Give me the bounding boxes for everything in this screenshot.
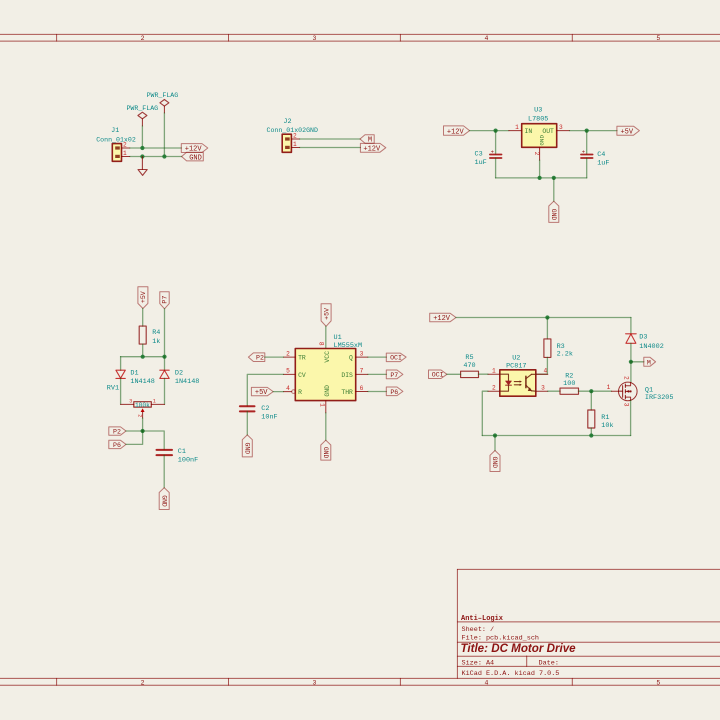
wire R2 to Q1 gate [579,390,612,392]
wire J2 pin2 to M label [300,138,360,140]
pin 2 of U3 (GND) [539,147,541,160]
wire U1 pin3 to OCI [368,356,386,358]
wire P2 to U1 pin2 [265,356,284,358]
svg-text:C4: C4 [597,151,605,159]
global label GND (right section) [490,451,500,472]
svg-text:+5V: +5V [255,389,268,397]
svg-text:THR: THR [341,389,353,396]
svg-text:2: 2 [286,350,290,357]
svg-text:Q: Q [349,355,353,362]
U2 internal LED [500,374,512,391]
svg-text:1: 1 [153,398,156,404]
svg-text:1: 1 [492,367,496,374]
svg-text:7: 7 [360,368,364,375]
svg-text:1k: 1k [152,338,160,346]
global label OCI (U1 out) [386,353,406,362]
connector J1 [96,127,136,161]
svg-text:10k: 10k [601,422,613,430]
wire junction down to R1 [590,391,592,410]
svg-text:IN: IN [525,128,533,135]
wire U1 pin1 to GND label [325,413,327,440]
svg-text:1: 1 [123,150,127,157]
svg-text:DIS: DIS [341,372,353,379]
svg-text:6: 6 [360,385,364,392]
mosfet Q1 IRF3205 [607,376,674,407]
global label P2 (left) [109,427,126,436]
svg-text:3: 3 [360,350,364,357]
pin 2 of J2 [291,138,299,140]
wire P6 up to node [126,431,143,444]
timer U1 LM555xM [283,334,368,413]
pin 5 CV of U1 [283,373,295,375]
svg-text:VCC: VCC [324,351,331,363]
pin 3 of U2 [536,390,548,392]
wire U3 pin2 to gnd bus [539,160,541,178]
potentiometer RV1 [107,385,165,419]
diode D1 [116,370,125,378]
junction at C4 top [585,129,589,133]
pin 1 of U2 [488,373,500,375]
pin 6 THR of U1 [356,391,368,393]
wire down to D1 [120,357,122,371]
U2 phototransistor [526,374,536,391]
global label OCI (input) [429,370,447,379]
pin 1 of J1 [122,156,130,158]
wire R1 to gnd bus [590,428,592,436]
wire D1 to RV1 left [120,378,122,404]
PWR_FLAG (right, on GND) [147,92,179,113]
svg-text:4: 4 [543,367,547,374]
svg-text:5: 5 [656,35,660,42]
svg-text:C3: C3 [475,150,483,158]
svg-text:PWR_FLAG: PWR_FLAG [147,92,179,99]
svg-text:J2: J2 [283,118,291,126]
svg-text:P6: P6 [390,389,398,396]
title block frame [457,569,720,678]
svg-text:2: 2 [141,679,145,686]
junction M node [629,360,633,364]
svg-text:1uF: 1uF [597,159,609,167]
wire node horizontal (D1 branch to D2 branch) [121,356,165,358]
junction GND label at bus [552,176,556,180]
svg-text:1: 1 [607,384,611,391]
pin 4 of U2 [536,373,548,375]
diode D2 [160,370,169,378]
pin 2 TR of U1 [283,356,295,358]
junction at C3 top [494,129,498,133]
global label +12V (right section) [430,313,456,323]
svg-text:D1: D1 [130,370,138,378]
svg-text:P2: P2 [113,429,121,436]
svg-text:GND: GND [491,457,498,469]
svg-text:U1: U1 [334,334,342,342]
svg-text:470: 470 [463,362,475,370]
capacitor C1 [157,448,199,465]
global label P6 (left) [109,440,126,449]
wire P2 to node [126,430,143,432]
capacitor C4 [581,131,609,178]
svg-text:1N4148: 1N4148 [130,378,154,386]
svg-text:3: 3 [129,398,132,404]
resistor R1 [588,410,614,430]
wire rail down to R3 [546,318,548,339]
global label GND (J1) [182,152,204,162]
global label +5V (above U1, vertical) [321,304,331,327]
wire +5V to R4 [142,309,144,327]
svg-text:3: 3 [559,124,563,131]
svg-text:M: M [647,359,651,366]
svg-text:2: 2 [137,414,143,417]
wire Q1 source to gnd bus [630,401,632,436]
svg-text:3: 3 [313,679,317,686]
svg-text:KiCad E.D.A. kicad 7.0.5: KiCad E.D.A. kicad 7.0.5 [462,670,560,678]
svg-text:Size: A4: Size: A4 [462,660,495,668]
junction R1 top [589,389,593,393]
svg-text:CV: CV [298,372,306,379]
capacitor C2 [240,405,278,422]
wire bus to GND label [553,178,555,201]
global label P7 (vertical, left area) [160,292,169,309]
wire OCI to R5 [447,373,461,375]
svg-text:+12V: +12V [433,315,451,323]
svg-text:PWR_FLAG: PWR_FLAG [126,105,158,112]
svg-text:L7805: L7805 [528,115,548,123]
connector J2 [267,118,318,152]
wire U1 pin5 to C2 [247,374,283,406]
svg-text:GND: GND [324,385,331,397]
wire +5V to U1 VCC [325,326,327,348]
global label GND (below U1) [321,440,331,460]
svg-text:J1: J1 [111,127,119,135]
pin 1 GND of U1 [325,401,327,413]
wire D2 branch [164,357,166,371]
svg-text:2: 2 [623,376,630,380]
svg-text:OUT: OUT [542,128,554,135]
junction R3 top [545,315,549,319]
svg-text:P7: P7 [390,372,398,379]
svg-text:+12V: +12V [363,145,381,153]
global label +5V (U1 reset) [251,387,273,397]
global label GND (below C2) [242,435,252,457]
svg-text:3: 3 [622,403,629,407]
svg-text:+5V: +5V [140,291,147,303]
resistor R3 [544,339,573,359]
svg-text:+12V: +12V [447,128,465,136]
pin 1 of J2 [291,147,299,149]
svg-text:4: 4 [286,385,290,392]
wire M node to label [631,361,644,363]
junction U3 pin2 at bus [538,176,542,180]
svg-text:1: 1 [293,141,297,148]
pin 2 of U2 [488,390,500,392]
global label M (J2) [360,135,374,145]
global label P6 (U1 thr) [386,387,403,396]
svg-text:5: 5 [286,368,290,375]
svg-text:GND: GND [189,154,202,162]
wire J2 pin1 to +12V label [300,147,361,149]
svg-text:C2: C2 [261,405,269,413]
global label +12V (J1) [181,144,208,154]
svg-text:+5V: +5V [620,128,633,136]
svg-text:D3: D3 [639,333,647,341]
wire +12V to U3 pin1 [470,130,509,132]
svg-text:R5: R5 [465,354,473,362]
svg-text:2: 2 [123,141,127,148]
svg-text:1N4148: 1N4148 [175,378,199,386]
svg-text:Sheet: /: Sheet: / [462,626,495,634]
wire U3 pin3 to +5V label [570,130,617,132]
svg-text:2: 2 [141,35,145,42]
junction R4 bottom [141,355,145,359]
wire +12V rail [456,317,631,319]
svg-text:OCI: OCI [390,355,402,362]
junction GND wire at x164 [162,154,166,158]
wire C2 to GND label [246,411,248,435]
svg-text:D2: D2 [175,370,183,378]
global label P7 (U1 dis) [386,370,403,379]
svg-text:U3: U3 [534,107,542,115]
pin 3 Q of U1 [356,356,368,358]
pin 3 of U3 [557,130,570,132]
svg-text:R: R [298,389,302,396]
junction GND wire at x142 [140,154,144,158]
svg-text:+5V: +5V [323,308,330,320]
wire gnd bus (right section) [482,435,630,437]
global label GND (below C1) [159,488,169,510]
svg-text:8: 8 [318,342,325,346]
svg-text:Anti–Logix: Anti–Logix [461,615,504,623]
svg-text:GND: GND [160,495,167,507]
svg-text:100k: 100k [135,402,150,409]
wire R5 to U2 pin1 [479,373,488,375]
wire D2 to RV1 right [164,378,166,404]
junction P2 node [141,429,145,433]
svg-text:P2: P2 [256,355,264,362]
wire +5V to U1 pin4 [273,391,283,393]
svg-text:2: 2 [533,152,540,156]
wire PWR_FLAG left to +12V wire [141,126,143,148]
wire U1 pin7 to P7 [368,373,386,375]
svg-text:P6: P6 [113,442,121,449]
svg-text:GND: GND [538,135,545,146]
diode D3 [626,318,664,362]
svg-text:TR: TR [298,355,306,362]
svg-text:R4: R4 [152,329,160,337]
resistor R5 [461,354,479,377]
svg-text:Title: DC Motor Drive: Title: DC Motor Drive [461,642,577,655]
wire P7 down to node [164,309,166,357]
svg-text:2: 2 [293,132,297,139]
global label +5V (U3 output) [617,126,640,136]
svg-text:2: 2 [492,384,496,391]
svg-text:1uF: 1uF [475,159,487,167]
global label +5V (above R4, vertical) [138,287,148,309]
global label P2 (U1 TR) [248,353,264,362]
wire U1 pin6 to P6 [368,391,386,393]
svg-text:100nF: 100nF [178,456,198,464]
pin 7 DIS of U1 [356,373,368,375]
pin 4 R of U1 (inverted) [283,391,291,393]
svg-text:3: 3 [541,384,545,391]
wire node to C1 corner [143,431,165,450]
wire R4 to node [142,344,144,357]
U2 light arrows [514,380,522,386]
svg-text:GND: GND [322,447,329,459]
wire J1 pin1 to GND label [130,156,182,158]
border column numbers [141,35,661,686]
wire PWR_FLAG right to GND wire [163,113,165,157]
opto U2 PC817 [488,355,548,397]
junction on +12V wire [140,146,144,150]
svg-text:Conn_01x02: Conn_01x02 [96,136,136,143]
resistor R2 [560,372,579,394]
svg-text:R2: R2 [565,372,573,380]
global label +12V (U3 input) [444,126,470,136]
svg-text:4: 4 [484,679,488,686]
global label GND (below U3) [549,201,559,222]
wire M node to Q1 drain [630,362,632,383]
svg-text:File: pcb.kicad_sch: File: pcb.kicad_sch [462,634,540,642]
wire R3 to U2 pin4 [536,357,548,374]
svg-text:GND: GND [550,209,557,221]
wire bus to GND label [494,436,496,451]
svg-text:10nF: 10nF [261,413,277,421]
svg-text:3: 3 [313,35,317,42]
wire U2 pin3 to R2 [548,390,560,392]
svg-text:Date:: Date: [539,660,559,668]
svg-text:4: 4 [484,35,488,42]
wire RV1 wiper down [142,418,144,431]
svg-text:100: 100 [563,380,575,388]
regulator U3 L7805 [509,107,570,161]
svg-text:RV1: RV1 [107,385,119,393]
global label M (motor) [644,357,656,366]
wire U2 pin2 down to gnd bus [482,391,488,435]
junction R1 at bus [589,433,593,437]
svg-text:1: 1 [319,403,326,407]
junction at P7/D2 branch [162,355,166,359]
ground power symbol below J1 [138,157,147,176]
junction gnd label at bus [493,433,497,437]
wire gnd bus below U3 [496,177,587,179]
wire J1 pin2 to +12V label [130,147,182,149]
svg-text:GND: GND [243,443,250,455]
svg-text:U2: U2 [512,355,520,363]
svg-text:IRF3205: IRF3205 [645,394,674,402]
svg-text:P7: P7 [162,296,169,304]
pin 1 of U3 [509,130,522,132]
pin 2 of J1 [122,147,130,149]
svg-text:1N4002: 1N4002 [639,343,663,351]
svg-text:OCI: OCI [432,372,444,379]
svg-text:5: 5 [656,679,660,686]
wire C1 to GND label [163,455,165,488]
capacitor C3 [475,131,502,178]
PWR_FLAG (left, on +12V) [126,105,158,126]
svg-text:1: 1 [515,124,519,131]
global label +12V (J2) [360,143,385,153]
resistor R4 [139,326,160,346]
svg-text:2.2k: 2.2k [557,351,573,359]
svg-text:C1: C1 [178,448,186,456]
